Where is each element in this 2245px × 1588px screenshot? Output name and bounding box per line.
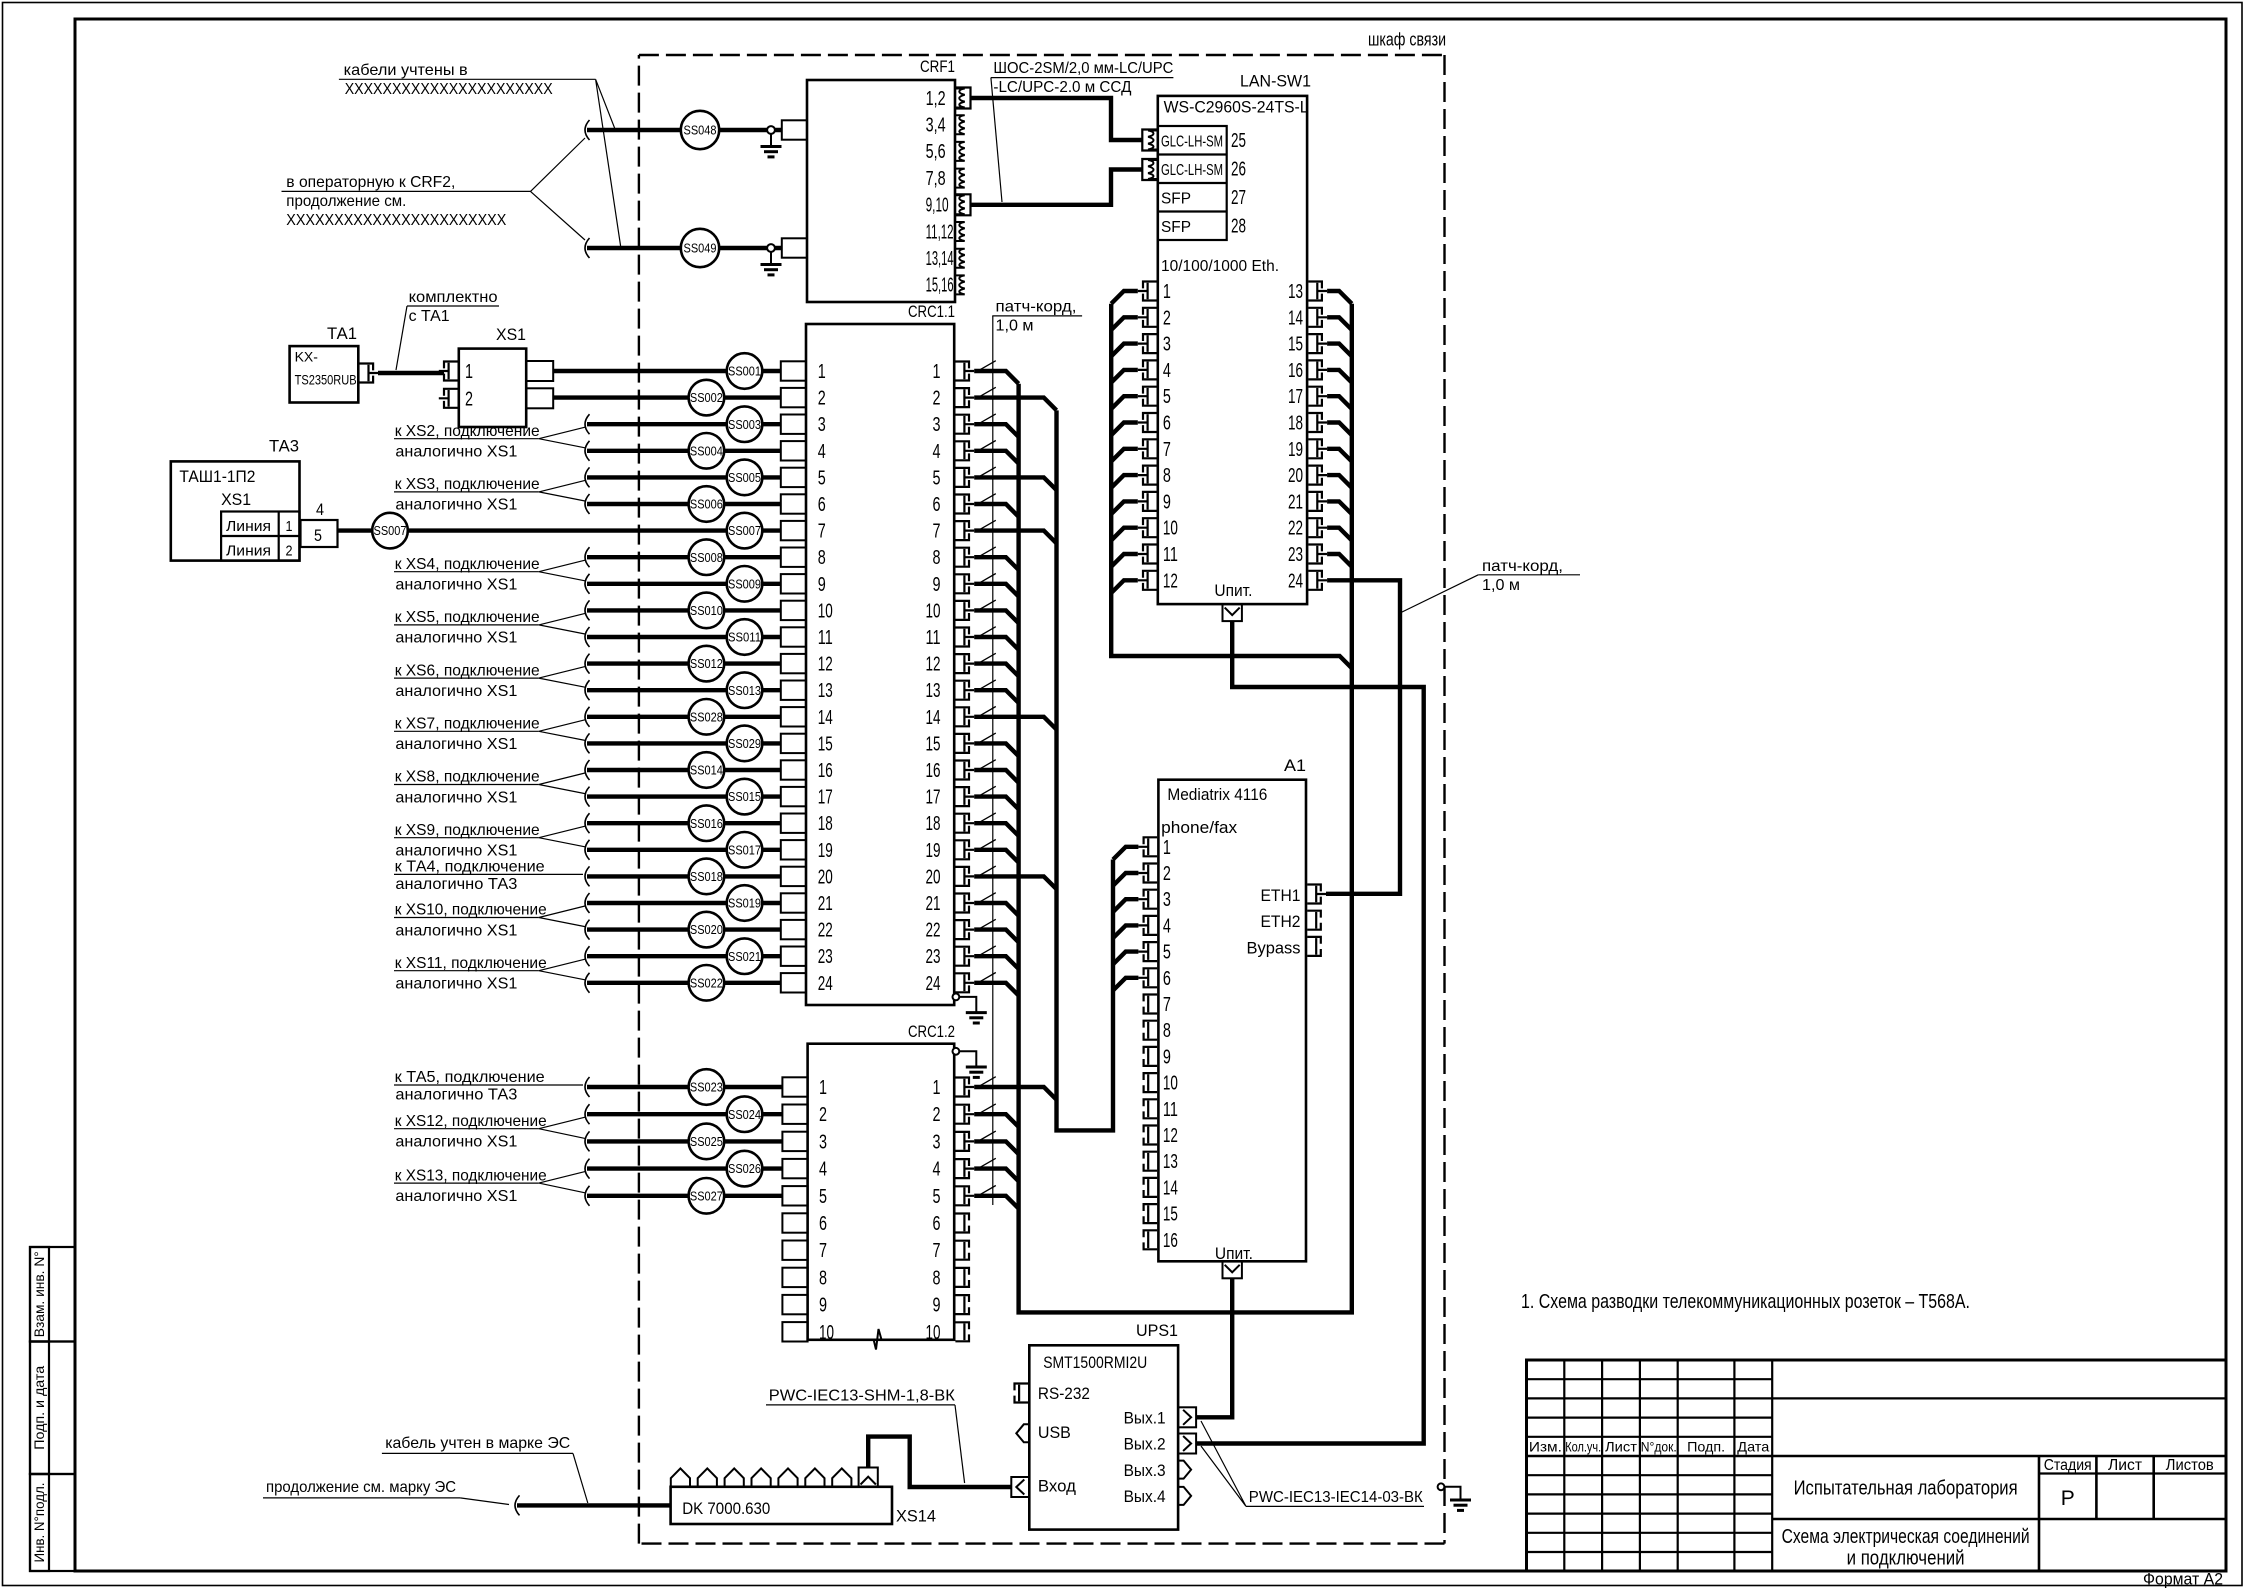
wire CRC1.1 pin 7 to phone bundle	[974, 531, 1056, 544]
wire to CRC1.1 pin 19	[587, 848, 781, 852]
leader кабель учтен	[573, 1453, 588, 1503]
socket SS014	[689, 752, 725, 788]
svg-text:12: 12	[1163, 1125, 1178, 1147]
socket SS006	[689, 486, 725, 522]
svg-text:13: 13	[926, 680, 941, 702]
break arc wire SS049	[585, 238, 590, 258]
wire A1 phone 4 to bundle	[1113, 925, 1138, 938]
wire to CRC1.1 pin 5	[587, 475, 781, 479]
CRC1.1 left pin 17	[781, 787, 806, 806]
svg-text:25: 25	[1231, 130, 1246, 152]
CRC1.2 left pin 1	[782, 1077, 807, 1096]
socket SS019	[727, 885, 763, 921]
break arc pin 10	[585, 600, 590, 620]
CRC1.2 right pin 5	[955, 1186, 969, 1205]
CRF1 pin 13,14 jack	[955, 249, 965, 268]
socket SS025	[689, 1124, 725, 1160]
svg-text:15: 15	[1288, 334, 1303, 356]
LAN-SW1 port 21	[1308, 492, 1322, 511]
svg-text:6: 6	[1163, 968, 1171, 990]
break arc pin 23	[585, 946, 590, 966]
svg-text:22: 22	[1288, 518, 1303, 540]
svg-text:21: 21	[818, 893, 833, 915]
svg-text:11: 11	[926, 627, 941, 649]
svg-text:9: 9	[819, 1295, 827, 1317]
wire to CRC1.1 pin 22	[587, 927, 781, 931]
svg-text:4: 4	[316, 500, 324, 519]
wire port 20 to bundle	[1327, 475, 1352, 488]
svg-text:SS026: SS026	[728, 1161, 761, 1176]
wire to CRC1.2 pin 1	[587, 1085, 783, 1089]
break arc pin 8	[585, 547, 590, 567]
svg-text:продолжение см. марку ЭС: продолжение см. марку ЭС	[266, 1479, 456, 1496]
socket SS004	[689, 433, 725, 469]
svg-text:19: 19	[818, 840, 833, 862]
wire CRC1.2 pin 5 to LAN bundle	[974, 1196, 1018, 1209]
CRF1 pin 9,10 jack	[955, 195, 965, 214]
wire to CRC1.1 pin 14	[587, 715, 781, 719]
wire to CRC1.1 pin 9	[587, 582, 781, 586]
CRC1.1 right pin 19	[955, 840, 969, 859]
socket SS016	[689, 805, 725, 841]
svg-text:5: 5	[933, 467, 941, 489]
DK outlet 4	[752, 1468, 771, 1486]
svg-text:1,0 м: 1,0 м	[1482, 577, 1520, 594]
svg-text:7: 7	[1163, 994, 1171, 1016]
svg-text:7: 7	[1163, 439, 1171, 461]
svg-text:SFP: SFP	[1161, 219, 1191, 236]
wire port 17 to bundle	[1327, 396, 1352, 409]
wire CRC1.1 pin 4 to LAN bundle	[974, 451, 1018, 464]
svg-text:4: 4	[1163, 915, 1171, 937]
CRC1.1 left pin 13	[781, 681, 806, 700]
wire A1 phone 1 to bundle	[1113, 847, 1138, 860]
CRC1.1 right pin 6	[955, 495, 969, 514]
break arc pin 4	[585, 441, 590, 461]
wire port 3 to bundle	[1111, 344, 1138, 357]
svg-text:9: 9	[933, 574, 941, 596]
svg-text:4: 4	[1163, 360, 1171, 382]
LAN-SW1 port 4	[1143, 360, 1157, 379]
CRC1.1 right pin 17	[955, 787, 969, 806]
svg-text:SS048: SS048	[684, 123, 717, 138]
svg-text:8: 8	[933, 547, 941, 569]
wire CRC1.1 pin 12 to LAN bundle	[974, 664, 1018, 677]
socket SS027	[689, 1178, 725, 1214]
break arc pin 15	[585, 733, 590, 753]
wire to CRC1.2 pin 4	[587, 1166, 783, 1170]
wire CRC1.1 pin 9 to LAN bundle	[974, 584, 1018, 597]
CRC1.1 right pin 1	[955, 362, 969, 381]
svg-text:патч-корд,: патч-корд,	[996, 299, 1077, 316]
svg-text:10: 10	[1163, 518, 1178, 540]
svg-text:PWC-IEC13-IEC14-03-ВК: PWC-IEC13-IEC14-03-ВК	[1249, 1489, 1424, 1506]
block LAN-SW1 box	[1158, 96, 1307, 604]
wire CRC1.1 pin 5 to phone bundle	[974, 477, 1056, 490]
CRC1.1 left pin 10	[781, 601, 806, 620]
svg-text:ТА1: ТА1	[327, 324, 357, 343]
svg-text:Инв. N°подл.: Инв. N°подл.	[32, 1483, 47, 1563]
CRC1.1 left pin 18	[781, 814, 806, 833]
svg-text:SS003: SS003	[728, 417, 761, 432]
svg-text:28: 28	[1231, 216, 1246, 238]
svg-text:7: 7	[818, 521, 826, 543]
leader кабели to wires	[596, 79, 621, 246]
svg-text:SS006: SS006	[690, 497, 723, 512]
CRC1.1 left pin 20	[781, 867, 806, 886]
svg-text:Линия: Линия	[226, 518, 271, 535]
svg-text:phone/fax: phone/fax	[1161, 818, 1237, 837]
svg-text:SS025: SS025	[690, 1134, 723, 1149]
svg-text:17: 17	[926, 787, 941, 809]
svg-text:10: 10	[1163, 1073, 1178, 1095]
CRF1 pin 3,4 jack	[955, 115, 965, 134]
svg-text:Дата: Дата	[1737, 1439, 1769, 1455]
wire port 22 to bundle	[1327, 528, 1352, 541]
svg-text:12: 12	[1163, 570, 1178, 592]
svg-text:13: 13	[1163, 1151, 1178, 1173]
leader в операторную to arcs	[531, 138, 586, 240]
DK outlet 8 connector	[859, 1468, 878, 1487]
socket SS009	[727, 566, 763, 602]
svg-text:ETH1: ETH1	[1261, 886, 1301, 905]
svg-text:аналогично XS1: аналогично XS1	[395, 922, 517, 939]
CRC1.1 left pin 22	[781, 920, 806, 939]
A1 phone pin 15	[1144, 1204, 1158, 1223]
socket SS020	[689, 912, 725, 948]
wire CRC1.1 pin 2 to phone bundle	[974, 398, 1056, 411]
CRC1.2 right pin 10	[955, 1322, 969, 1341]
socket SS028	[689, 699, 725, 735]
CRC1.1 right pin 8	[955, 548, 969, 567]
CRC1.2 left pin 7	[782, 1241, 807, 1260]
svg-text:5: 5	[1163, 942, 1171, 964]
svg-text:UPS1: UPS1	[1136, 1321, 1178, 1340]
svg-text:Вых.1: Вых.1	[1124, 1409, 1166, 1427]
svg-text:XS1: XS1	[221, 490, 251, 509]
CRC1.2 left pin 9	[782, 1295, 807, 1314]
svg-text:к XS4, подключение: к XS4, подключение	[395, 556, 540, 573]
svg-text:16: 16	[1288, 360, 1303, 382]
svg-text:SS007: SS007	[728, 523, 761, 538]
break arc wire SS048	[585, 120, 590, 140]
wire CRC1.1 pin 18 to LAN bundle	[974, 823, 1018, 836]
bundle wire phone V2	[1057, 410, 1114, 1130]
svg-text:16: 16	[926, 760, 941, 782]
svg-text:к XS2, подключение: к XS2, подключение	[395, 423, 540, 440]
LAN-SW1 port 12	[1143, 571, 1157, 590]
wire to CRC1.1 pin 10	[587, 608, 781, 612]
wire port 1 to bundle	[1111, 291, 1138, 304]
wire port 2 to bundle	[1111, 317, 1138, 330]
LAN-SW1 port 17	[1308, 387, 1322, 406]
svg-text:Стадия: Стадия	[2044, 1457, 2092, 1474]
svg-text:5: 5	[314, 526, 322, 545]
svg-text:6: 6	[819, 1213, 827, 1235]
svg-text:SS012: SS012	[690, 656, 723, 671]
A1 phone pin 12	[1144, 1126, 1158, 1145]
svg-text:аналогично XS1: аналогично XS1	[395, 843, 517, 860]
svg-text:SS011: SS011	[728, 630, 761, 645]
wire to CRC1.1 pin 15	[587, 741, 781, 745]
svg-text:10: 10	[819, 1322, 834, 1344]
svg-text:PWC-IEC13-SHM-1,8-ВК: PWC-IEC13-SHM-1,8-ВК	[769, 1388, 956, 1405]
svg-text:USB: USB	[1038, 1423, 1071, 1442]
wire CRC1.1 pin 23 to LAN bundle	[974, 956, 1018, 969]
CRC1.2 shield ground	[953, 1048, 960, 1055]
svg-text:3: 3	[1163, 889, 1171, 911]
svg-text:23: 23	[926, 946, 941, 968]
svg-text:6: 6	[818, 494, 826, 516]
block UPS1 box	[1029, 1345, 1178, 1529]
ground node CRF1 a	[767, 126, 775, 134]
wire port 21 to bundle	[1327, 501, 1352, 514]
wire CRC1.1 pin 13 to LAN bundle	[974, 690, 1018, 703]
LAN-SW1 port 15	[1308, 334, 1322, 353]
CRC1.2 right pin 2	[955, 1105, 969, 1124]
socket SS005	[727, 460, 763, 496]
CRC1.1 left pin 24	[781, 973, 806, 992]
svg-text:Подп.: Подп.	[1687, 1439, 1725, 1455]
svg-text:9,10: 9,10	[926, 195, 949, 217]
svg-text:TS2350RUB: TS2350RUB	[295, 372, 357, 388]
svg-text:5: 5	[818, 467, 826, 489]
wire Вход to DK XS14	[868, 1437, 1011, 1487]
LAN-SW1 port 19	[1308, 439, 1322, 458]
svg-text:аналогично XS1: аналогично XS1	[395, 976, 517, 993]
svg-text:и подключений: и подключений	[1847, 1548, 1965, 1570]
svg-text:15: 15	[926, 733, 941, 755]
CRC1.2 right pin 6	[955, 1214, 969, 1233]
svg-text:4: 4	[933, 441, 941, 463]
A1 power connector	[1223, 1261, 1242, 1278]
wire to CRC1.2 pin 2	[587, 1112, 783, 1116]
svg-text:Взам. инв. N°: Взам. инв. N°	[32, 1251, 47, 1337]
svg-text:SS024: SS024	[728, 1107, 761, 1122]
bundle wire LAN right ports / CRC V1	[1019, 304, 1352, 1313]
svg-text:SS018: SS018	[690, 869, 723, 884]
svg-text:RS-232: RS-232	[1038, 1384, 1090, 1403]
A1 phone pin 4	[1144, 916, 1158, 935]
break arc pin 3	[585, 414, 590, 434]
svg-text:15,16: 15,16	[926, 275, 954, 297]
svg-text:Лист: Лист	[2108, 1457, 2142, 1474]
wire to CRC1.2 pin 3	[587, 1139, 783, 1143]
svg-text:3: 3	[1163, 334, 1171, 356]
wire to CRC1.1 pin 16	[587, 768, 781, 772]
svg-text:6: 6	[933, 494, 941, 516]
CRC1.1 left pin 23	[781, 947, 806, 966]
CRC1.2 left pin 4	[782, 1159, 807, 1178]
A1 phone pin 6	[1144, 968, 1158, 987]
CRC1.1 left pin 16	[781, 760, 806, 779]
leader комплектно	[396, 306, 407, 370]
wire CRC1.1 pin 16 to LAN bundle	[974, 770, 1018, 783]
CRF1 pin 7,8 jack	[955, 169, 965, 188]
wire port 16 to bundle	[1327, 370, 1352, 383]
svg-text:к ТА4, подключение: к ТА4, подключение	[395, 858, 545, 875]
leader ШОС to fiber wires	[991, 78, 1002, 202]
LAN-SW1 port 20	[1308, 466, 1322, 485]
svg-text:Схема электрическая соединений: Схема электрическая соединений	[1782, 1526, 2030, 1548]
svg-text:7: 7	[933, 1240, 941, 1262]
LAN-SW1 port 7	[1143, 439, 1157, 458]
CRF1 left pin b	[782, 238, 807, 257]
svg-text:24: 24	[818, 973, 833, 995]
break arc CRC1.2 pin 1	[585, 1077, 590, 1097]
svg-text:Вых.3: Вых.3	[1124, 1462, 1166, 1480]
socket SS013	[727, 672, 763, 708]
svg-text:12: 12	[818, 654, 833, 676]
svg-text:к XS5, подключение: к XS5, подключение	[395, 609, 540, 626]
svg-text:16: 16	[818, 760, 833, 782]
A1 phone pin 7	[1144, 995, 1158, 1014]
svg-text:11: 11	[1163, 544, 1178, 566]
svg-text:16: 16	[1163, 1230, 1178, 1252]
wire A1 phone 6 to bundle	[1113, 978, 1138, 991]
CRC1.2 left pin 8	[782, 1268, 807, 1287]
svg-text:1: 1	[819, 1077, 827, 1099]
patch cord tick marks	[980, 361, 996, 1195]
svg-text:1: 1	[465, 361, 473, 383]
svg-text:ETH2: ETH2	[1261, 912, 1301, 931]
svg-text:5: 5	[1163, 386, 1171, 408]
svg-text:ТАШ1-1П2: ТАШ1-1П2	[179, 467, 255, 486]
CRC1.1 right pin 11	[955, 628, 969, 647]
leader продолжение	[460, 1498, 509, 1505]
svg-text:SS013: SS013	[728, 683, 761, 698]
svg-text:5: 5	[819, 1186, 827, 1208]
svg-text:аналогично XS1: аналогично XS1	[395, 630, 517, 647]
svg-text:ШОС-2SM/2,0 мм-LC/UPC: ШОС-2SM/2,0 мм-LC/UPC	[993, 60, 1173, 77]
svg-text:4: 4	[933, 1159, 941, 1181]
svg-text:13: 13	[818, 680, 833, 702]
svg-text:3: 3	[819, 1131, 827, 1153]
svg-text:SS002: SS002	[690, 390, 723, 405]
svg-text:GLC-LH-SM: GLC-LH-SM	[1161, 134, 1223, 151]
wire SS049 line	[587, 246, 781, 250]
A1 phone pin 10	[1144, 1073, 1158, 1092]
socket SS012	[689, 646, 725, 682]
svg-text:2: 2	[933, 388, 941, 410]
CRC1.2 left pin 10	[782, 1322, 807, 1341]
svg-text:9: 9	[1163, 1046, 1171, 1068]
LAN-SW1 port 6	[1143, 413, 1157, 432]
svg-text:12: 12	[926, 654, 941, 676]
CRC1.1 right pin 2	[955, 388, 969, 407]
svg-text:Bypass: Bypass	[1247, 938, 1301, 957]
svg-text:ХХХХХХХХХХХХХХХХХХХХХХХ: ХХХХХХХХХХХХХХХХХХХХХХХ	[286, 212, 506, 229]
svg-text:шкаф связи: шкаф связи	[1368, 30, 1446, 50]
LAN-SW1 port 18	[1308, 413, 1322, 432]
svg-text:SS028: SS028	[690, 709, 723, 724]
CRC1.1 right pin 7	[955, 521, 969, 540]
svg-text:SS021: SS021	[728, 949, 761, 964]
svg-text:XS1: XS1	[496, 325, 526, 344]
svg-text:24: 24	[926, 973, 941, 995]
CRF1 pin 15,16 jack	[955, 275, 965, 294]
svg-text:22: 22	[926, 920, 941, 942]
svg-text:SS023: SS023	[690, 1080, 723, 1095]
wire to CRC1.1 pin 13	[587, 688, 781, 692]
svg-text:2: 2	[286, 543, 293, 560]
break arc pin 21	[585, 893, 590, 913]
socket SS010	[689, 593, 725, 629]
LAN-SW1 port 16	[1308, 360, 1322, 379]
svg-text:2: 2	[465, 388, 473, 410]
svg-text:3,4: 3,4	[926, 115, 946, 137]
XS1 pin 1	[444, 362, 458, 381]
svg-text:Линия: Линия	[226, 543, 271, 560]
svg-text:9: 9	[1163, 491, 1171, 513]
CRC1.2 right pin 9	[955, 1295, 969, 1314]
wire A1 Uпит to UPS Вых.1	[1196, 1278, 1232, 1417]
wire port 11 to bundle	[1111, 554, 1138, 567]
break arc pin 19	[585, 840, 590, 860]
CRC1.1 left pin 9	[781, 574, 806, 593]
svg-text:SS014: SS014	[690, 763, 723, 778]
CRF1 pin 1,2 jack	[955, 89, 965, 108]
CRC1.2 right pin 4	[955, 1159, 969, 1178]
wire port 19 to bundle	[1327, 449, 1352, 462]
svg-text:11: 11	[818, 627, 833, 649]
leader PWC-SHM	[955, 1405, 965, 1483]
svg-text:Mediatrix 4116: Mediatrix 4116	[1167, 785, 1267, 804]
CRC1.1 right pin 20	[955, 867, 969, 886]
break arc pin 24	[585, 973, 590, 993]
svg-text:17: 17	[818, 787, 833, 809]
svg-text:2: 2	[933, 1104, 941, 1126]
CRC1.1 left pin 4	[781, 441, 806, 460]
svg-text:комплектно: комплектно	[409, 289, 498, 306]
left stamp box Взам. инв. №	[30, 1247, 75, 1342]
CRC1.1 right pin 4	[955, 441, 969, 460]
LAN-SW1 port 14	[1308, 308, 1322, 327]
svg-text:1: 1	[286, 518, 293, 535]
CRC1.1 left pin 5	[781, 468, 806, 487]
socket SS018	[689, 859, 725, 895]
wire port 14 to bundle	[1327, 317, 1352, 330]
svg-text:23: 23	[818, 946, 833, 968]
svg-text:Изм.: Изм.	[1529, 1439, 1562, 1455]
svg-text:20: 20	[926, 866, 941, 888]
wire A1 phone 2 to bundle	[1113, 873, 1138, 886]
svg-text:XS14: XS14	[896, 1507, 936, 1526]
svg-text:22: 22	[818, 920, 833, 942]
CRC1.1 left pin 3	[781, 415, 806, 434]
A1 phone pin 5	[1144, 942, 1158, 961]
leader патч-корд right	[1400, 575, 1478, 613]
A1 phone pin 8	[1144, 1021, 1158, 1040]
wire TA1 to XS1	[378, 371, 444, 375]
svg-text:Uпит.: Uпит.	[1215, 1244, 1253, 1263]
TA3 terminal table	[221, 512, 299, 561]
svg-text:к XS12, подключение: к XS12, подключение	[395, 1113, 547, 1130]
break arc pin 16	[585, 760, 590, 780]
CRC1.1 right pin 3	[955, 415, 969, 434]
svg-text:аналогично XS1: аналогично XS1	[395, 577, 517, 594]
LAN-SW1 port 9	[1143, 492, 1157, 511]
DK outlet 7	[832, 1468, 851, 1486]
svg-text:8: 8	[819, 1267, 827, 1289]
svg-text:кабель учтен в марке ЭС: кабель учтен в марке ЭС	[385, 1435, 570, 1452]
svg-text:7,8: 7,8	[926, 168, 946, 190]
A1 phone pin 1	[1144, 837, 1158, 856]
CRC1.1 right pin 15	[955, 734, 969, 753]
wire to CRC1.1 pin 18	[587, 821, 781, 825]
DK outlet 1	[671, 1468, 690, 1486]
svg-text:1,2: 1,2	[926, 88, 946, 110]
